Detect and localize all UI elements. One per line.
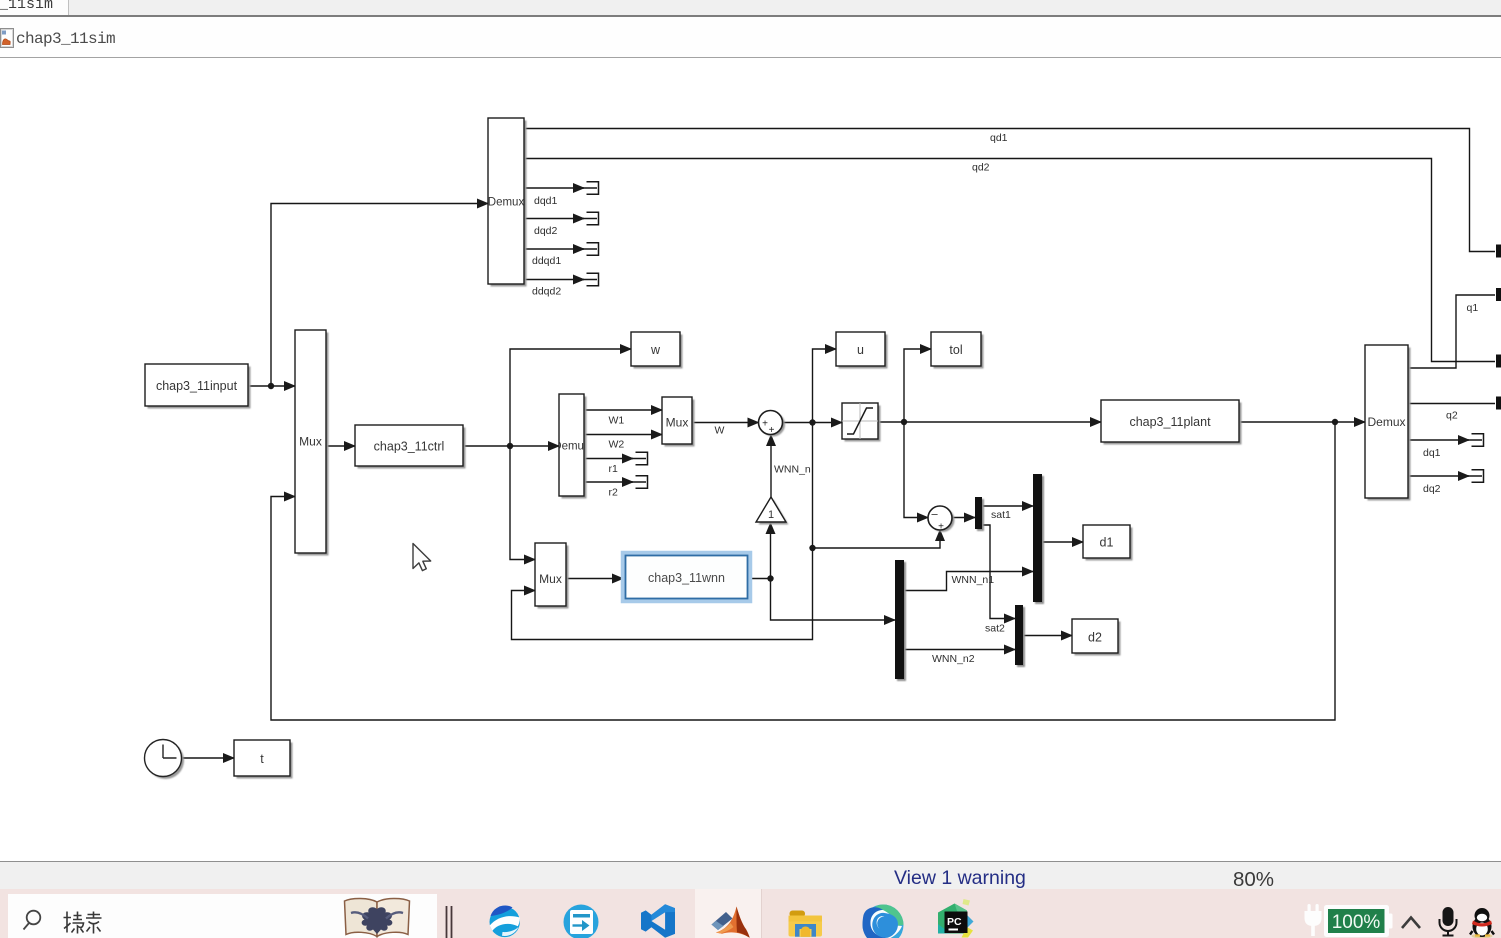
wire dqd1 <box>525 187 585 189</box>
mux Mux2 <box>662 397 695 447</box>
svg-text:+: + <box>769 425 775 436</box>
mux Mux3 <box>535 543 569 609</box>
wire ctrl to Demux2 <box>463 445 559 447</box>
svg-text:Demux: Demux <box>1367 415 1405 429</box>
svg-text:dq1: dq1 <box>1423 447 1441 459</box>
wire ddqd2 <box>525 279 585 281</box>
svg-text:u: u <box>857 343 864 357</box>
wire bar2 to d1 <box>1042 541 1083 543</box>
svg-text:dqd2: dqd2 <box>534 225 558 237</box>
edge icon <box>863 905 904 938</box>
wire sat2 bar1 to bar3 <box>981 525 1015 619</box>
wire branch to u outport <box>813 349 837 423</box>
wire ddqd1 <box>525 248 585 250</box>
terminator r1 <box>631 452 648 465</box>
wire saturation to plant <box>878 421 1101 423</box>
svg-text:Demux: Demux <box>488 197 525 209</box>
demux Demux1 <box>488 118 527 287</box>
demux bar4 <box>895 560 906 681</box>
svg-text:100%: 100% <box>1332 912 1381 933</box>
svg-text:W2: W2 <box>609 439 625 451</box>
mux bar3 <box>1015 605 1025 667</box>
wire wnn junction up to gain <box>770 523 772 579</box>
subsystem chap3_11ctrl <box>355 425 466 469</box>
outport edge port qd2 <box>1496 355 1501 368</box>
node junction plant out <box>1332 419 1338 425</box>
wire branch to sum2 left input <box>904 422 928 518</box>
wire r1 <box>584 458 633 460</box>
wire bar3 to d2 <box>1023 635 1072 637</box>
wire dqd2 <box>525 218 585 220</box>
node junction sat out <box>901 419 907 425</box>
svg-text:q2: q2 <box>1446 410 1458 422</box>
wire wnn junction down to bar4 <box>771 579 896 621</box>
wire q2 <box>1408 403 1495 405</box>
terminator dq1 <box>1467 434 1484 447</box>
model file icon <box>1 29 14 48</box>
sum block sum1 <box>759 411 786 437</box>
outport edge port q1 <box>1496 288 1501 301</box>
taskbar divider bars <box>447 906 452 938</box>
svg-text:w: w <box>650 343 661 357</box>
svg-text:+: + <box>938 522 944 533</box>
search text glyphs sou suo <box>64 912 102 934</box>
svg-text:t: t <box>260 752 264 766</box>
wire branch to Mux3 top input <box>510 446 535 560</box>
power plug icon <box>1305 904 1322 936</box>
outport edge port qd1 <box>1496 245 1501 258</box>
svg-text:qd2: qd2 <box>972 162 990 174</box>
svg-text:W1: W1 <box>609 415 625 427</box>
wire plant to Demux3 <box>1239 421 1365 423</box>
wire q1 <box>1408 295 1495 368</box>
svg-text:r2: r2 <box>609 487 618 499</box>
tray chevron <box>1402 918 1420 929</box>
wire W2 <box>584 434 662 436</box>
wire gain to sum1 bottom input <box>770 435 772 497</box>
svg-text:Mux: Mux <box>539 572 562 586</box>
wire input to Mux1 <box>248 385 295 387</box>
wire branch to tol outport <box>904 349 931 422</box>
terminator r2 <box>631 476 648 489</box>
outport d2 <box>1072 619 1121 656</box>
wire qd1 <box>525 129 1496 252</box>
svg-text:Mux: Mux <box>299 435 322 449</box>
svg-text:WNN_n: WNN_n <box>774 464 811 476</box>
svg-text:d2: d2 <box>1088 631 1102 645</box>
wire node junction to Demux1 <box>271 204 488 387</box>
terminator ddqd1 <box>582 243 599 256</box>
mux Mux1 <box>295 330 329 556</box>
svg-text:tol: tol <box>949 343 962 357</box>
wire W Mux2 to sum1 <box>692 422 759 424</box>
svg-text:W: W <box>715 425 725 437</box>
file explorer icon <box>789 911 823 937</box>
mux bar2 <box>1033 474 1044 604</box>
outport tol <box>931 332 984 369</box>
svg-text:dqd1: dqd1 <box>534 195 558 207</box>
svg-text:ddqd1: ddqd1 <box>532 255 561 267</box>
outport t <box>234 740 293 779</box>
svg-text:–: – <box>931 509 938 521</box>
svg-text:ddqd2: ddqd2 <box>532 286 561 298</box>
outport u <box>836 332 888 369</box>
wire feedback to Mux3 bottom input <box>512 548 813 640</box>
terminator dqd1 <box>582 182 599 195</box>
wire down from sum1 output junction <box>812 423 814 549</box>
node junction ctrl out <box>507 443 513 449</box>
terminator dqd2 <box>582 212 599 225</box>
clock block <box>145 740 185 780</box>
mouse cursor <box>413 544 431 571</box>
subsystem chap3_11wnn selected <box>623 553 750 601</box>
wire r2 <box>584 481 633 483</box>
wire main feedback loop <box>271 422 1335 720</box>
wire WNN_n1 bar4 to bar2 <box>904 572 1033 591</box>
sum block sum2 <box>928 506 955 533</box>
wire sum2 to bar1 <box>952 517 975 519</box>
demux Demux2 emu <box>553 394 590 499</box>
wire Mux3 to wnn <box>566 578 623 580</box>
svg-text:d1: d1 <box>1100 536 1114 550</box>
subsystem chap3_11input <box>145 364 251 409</box>
vscode icon <box>641 904 675 938</box>
wire qd2 <box>525 159 1496 362</box>
gain block 1 <box>756 497 789 525</box>
book icon <box>345 898 410 936</box>
svg-text:r1: r1 <box>609 463 618 475</box>
wire to sum2 bottom input <box>813 530 941 548</box>
outport d1 <box>1083 525 1133 561</box>
svg-text:Mux: Mux <box>666 416 689 430</box>
wire sum1 to saturation <box>783 422 842 424</box>
wire WNN_n2 bar4 to bar3 <box>904 649 1015 651</box>
terminator dq2 <box>1467 470 1484 483</box>
svg-text:q1: q1 <box>1467 302 1479 314</box>
subsystem chap3_11plant <box>1101 400 1242 445</box>
svg-text:WNN_n1: WNN_n1 <box>952 574 995 586</box>
matlab icon <box>712 907 750 938</box>
wire W1 <box>584 409 662 411</box>
microphone icon <box>1440 907 1457 936</box>
svg-text:dq2: dq2 <box>1423 483 1441 495</box>
terminator ddqd2 <box>582 273 599 286</box>
wire dq2 <box>1408 475 1469 477</box>
battery 100% indicator <box>1324 905 1393 937</box>
wire sat1 bar1 to bar2 <box>981 505 1033 507</box>
svg-text:chap3_11wnn: chap3_11wnn <box>648 571 725 585</box>
svg-text:sat1: sat1 <box>991 509 1011 521</box>
node junction sum1 out <box>809 419 815 425</box>
svg-text:PC: PC <box>947 916 962 928</box>
demux Demux3 <box>1365 345 1411 501</box>
svg-text:qd1: qd1 <box>990 132 1008 144</box>
saturation block <box>842 403 881 442</box>
outport edge port q2 <box>1496 397 1501 410</box>
svg-text:chap3_11input: chap3_11input <box>156 379 238 393</box>
svg-text:1: 1 <box>768 509 774 521</box>
svg-text:WNN_n2: WNN_n2 <box>932 653 975 665</box>
files app icon <box>564 905 599 938</box>
node junction input <box>268 383 274 389</box>
svg-text:chap3_11ctrl: chap3_11ctrl <box>374 440 445 454</box>
wire wnn output <box>749 578 771 580</box>
wire branch to w outport <box>510 349 631 446</box>
search magnifier icon <box>24 911 41 930</box>
wire clock to t <box>182 757 234 759</box>
qq penguin icon <box>1470 908 1494 938</box>
wire dq1 <box>1408 439 1469 441</box>
node junction lower <box>809 545 815 551</box>
wire Mux1 to ctrl <box>326 445 355 447</box>
svg-text:chap3_11plant: chap3_11plant <box>1129 415 1211 429</box>
outport w <box>631 332 683 369</box>
demux bar1 <box>975 497 984 531</box>
node junction wnn out <box>767 575 773 581</box>
pycharm icon <box>938 899 974 938</box>
svg-text:sat2: sat2 <box>985 623 1005 635</box>
svg-text:+: + <box>762 419 768 430</box>
edge legacy icon <box>490 906 520 938</box>
